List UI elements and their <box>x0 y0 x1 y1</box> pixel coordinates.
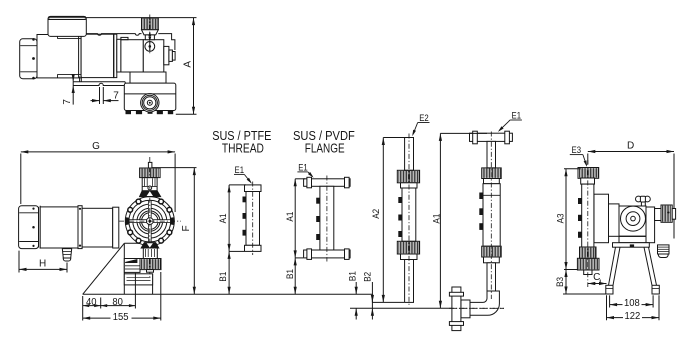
svg-text:G: G <box>92 141 100 152</box>
dimension G line <box>21 151 175 153</box>
side view: gear housing <box>82 208 113 247</box>
svg-text:B2: B2 <box>362 272 373 282</box>
svg-text:B1: B1 <box>348 271 359 281</box>
E3 bottom nut 2 <box>577 258 599 270</box>
dimension A3 extensions <box>564 168 581 170</box>
top view: valve stem <box>145 35 154 40</box>
svg-text:40: 40 <box>86 297 97 308</box>
E1 tee bar <box>470 133 513 141</box>
side view: head bolts <box>167 230 172 235</box>
side view: motor flange <box>78 206 82 249</box>
E2 union nut 1 <box>397 170 419 183</box>
svg-text:A1: A1 <box>285 212 296 222</box>
top view: motor mounting rail with notch <box>73 81 125 83</box>
right view: gearbox circle <box>621 206 646 231</box>
svg-text:7: 7 <box>62 99 73 105</box>
dimension A1 (thread) extensions <box>229 184 246 186</box>
right view: adapter <box>609 204 620 236</box>
right view: stand left leg <box>609 247 616 285</box>
E1 bottom tube <box>487 263 496 291</box>
dimension A1 (thread) <box>228 185 230 252</box>
top view: cover outline with notches <box>86 34 142 36</box>
E1 bottom flange bolts <box>449 292 463 296</box>
top view: pump head block 5 <box>172 52 175 61</box>
E1 elbow <box>470 291 499 315</box>
dimension 108 <box>610 304 623 306</box>
top view: head bracket <box>124 83 176 110</box>
dimension D <box>588 151 674 153</box>
side view: grille box with wedge <box>124 259 140 273</box>
top view: adapter section <box>117 39 121 72</box>
dimension A3 <box>565 169 567 270</box>
E3 pipe centerline <box>587 160 589 287</box>
top view: gear housing right band <box>113 34 115 77</box>
dimension 40/80 extension lines <box>82 296 84 321</box>
svg-text:A1: A1 <box>218 213 229 223</box>
right view: gearbox block <box>619 206 646 236</box>
thread pipe side tabs <box>243 197 247 203</box>
dimension A1 (right) <box>439 133 441 308</box>
side view: head cross channels <box>148 200 151 241</box>
right view: knob end cap <box>672 209 675 220</box>
E2 collar 1 <box>401 183 418 188</box>
E2 bottom tube <box>405 260 414 303</box>
svg-text:155: 155 <box>113 312 129 323</box>
top view: head rear outline step (right of valve) <box>158 34 175 50</box>
E3 top knurled nut <box>578 168 599 179</box>
svg-text:B1: B1 <box>285 269 296 279</box>
E1 union nut 1 <box>482 168 502 179</box>
E3 tube end <box>584 270 592 275</box>
dimension 122 <box>607 317 624 319</box>
thread pipe bottom cap <box>245 245 262 251</box>
side view: top fitting stem <box>148 162 152 168</box>
E3 side tabs <box>578 198 582 204</box>
side view: head clamp pads (dark) <box>171 218 174 225</box>
right view: knob stem <box>655 209 661 221</box>
E2 pipe top tube <box>405 138 414 171</box>
E2 union nut 2 <box>397 241 419 254</box>
dimension B1 (thread) <box>228 251 230 294</box>
E2 body <box>402 188 416 241</box>
top view: motor flange lines <box>78 35 80 78</box>
dimension 122 extensions <box>606 295 608 320</box>
E2 side tabs <box>398 197 402 203</box>
top view: front port circles <box>141 94 159 112</box>
side view: cable gland <box>62 249 71 258</box>
top view: gear housing <box>81 34 114 77</box>
top view: pump head block 4 <box>169 50 173 61</box>
E3 body <box>582 184 594 247</box>
dimension B2 (base offset) <box>371 282 373 302</box>
svg-text:108: 108 <box>624 298 640 309</box>
right view: stand right foot <box>652 285 659 294</box>
dimension 7 (horizontal, notch width) <box>99 87 101 104</box>
dimension A2 extensions <box>383 137 404 139</box>
top view: valve knob (knurled) <box>142 18 159 30</box>
E1 pipe centerline <box>490 132 492 300</box>
E3 bottom nut 1 <box>580 247 597 258</box>
E1 collar 1 <box>484 179 500 184</box>
svg-text:H: H <box>39 259 46 270</box>
side view: top fitting flare (with flow arrow) <box>140 191 161 197</box>
bottom pipe centerline overlay <box>449 307 504 309</box>
E1 union at elbow outlet <box>461 300 470 318</box>
flange pipe body <box>320 186 334 250</box>
dimension B1 (flange) <box>294 258 296 294</box>
right view: right housing section <box>646 207 655 243</box>
side view: dimension G extension lines <box>20 154 22 205</box>
svg-text:C: C <box>593 272 600 283</box>
right view: adjustment knob (knurled) <box>661 205 672 222</box>
top view: valve port circle <box>145 42 155 52</box>
side view: bottom fitting block <box>143 248 157 259</box>
right view: wing nut <box>636 196 642 202</box>
dimension 7 (vertical, rail offset) <box>72 75 74 82</box>
dimension A line <box>193 18 195 115</box>
E1 side tabs <box>479 193 483 200</box>
dimension D extension lines <box>587 154 589 165</box>
E1 bottom flange <box>452 287 461 331</box>
right view: cable gland <box>658 245 670 254</box>
dimension F line <box>193 168 195 295</box>
dimension A1 (right) extensions <box>440 132 487 134</box>
side view: nameplate <box>124 274 152 285</box>
svg-text:F: F <box>181 225 192 231</box>
svg-text:A: A <box>183 61 194 68</box>
dimension H <box>18 251 20 273</box>
right view: under-gearbox support <box>619 235 646 237</box>
E2 pipe centerline <box>408 134 410 306</box>
svg-text:A1: A1 <box>432 214 443 224</box>
E2 collar 2 <box>401 254 418 260</box>
E2 pipe bottom extension line <box>372 301 404 303</box>
top view: motor body <box>37 35 81 78</box>
dimension C <box>588 283 607 285</box>
right view: stand left foot <box>606 285 613 294</box>
thread pipe body <box>246 192 260 246</box>
side view: bracket diagonal and stand <box>83 243 125 294</box>
dimension 80 <box>101 305 136 307</box>
side view: head inner circles <box>137 208 163 234</box>
dimension B1 (base offset) <box>355 282 357 294</box>
E1 tee end tabs <box>473 131 478 144</box>
side view: pump head circle with bolts <box>125 197 174 246</box>
dimension A1 (flange) <box>294 179 296 258</box>
svg-text:B1: B1 <box>218 272 229 282</box>
right view: base extension line <box>563 293 607 295</box>
right view: head plate <box>594 194 609 243</box>
side view: dimension F extension line <box>150 167 196 169</box>
lower baseline <box>350 307 452 309</box>
dimension 155 <box>83 317 111 319</box>
top view: valve centerline <box>149 15 151 56</box>
top view: terminal box <box>48 16 86 36</box>
E1 collar 2 <box>484 257 500 263</box>
E1 body <box>483 184 500 247</box>
top view: pump head block 3 <box>164 46 169 64</box>
thread pipe centerline <box>252 182 254 256</box>
flange pipe centerline <box>326 176 328 262</box>
flange pipe bottom flange <box>304 250 351 258</box>
baseline (pump mounting plane) <box>83 293 373 295</box>
top view: motor end cap <box>20 39 37 79</box>
side view: motor body <box>40 207 78 248</box>
side view: bottom fitting tube end <box>147 270 154 273</box>
E1 tee stem <box>487 141 496 168</box>
E1 union nut 2 <box>482 246 502 257</box>
top view: valve flow double-arrow <box>149 33 151 41</box>
svg-text:D: D <box>627 141 634 152</box>
svg-text:FLANGE: FLANGE <box>305 140 345 155</box>
side view: top fitting block <box>142 178 157 191</box>
thread pipe top cap <box>245 185 262 192</box>
top view: valve taper <box>142 30 159 35</box>
flange pipe top flange <box>304 179 351 187</box>
right view: stand top plate <box>613 243 650 248</box>
side view: band section <box>113 207 119 248</box>
side view: head centerlines <box>149 157 151 278</box>
right view: stand right leg <box>649 247 657 285</box>
svg-text:THREAD: THREAD <box>222 140 264 155</box>
top view: pump head block 1 <box>121 40 143 72</box>
bottom pipe centerline (dash-dot) <box>452 307 504 309</box>
svg-text:80: 80 <box>112 297 123 308</box>
top view: pump head block 2 <box>143 40 164 72</box>
E3 collar <box>581 178 595 184</box>
svg-text:7: 7 <box>113 90 119 101</box>
flange pipe side tabs <box>316 198 320 204</box>
side view: motor end cap <box>19 206 39 249</box>
top view: dimension A extension line (bottom) <box>176 113 197 115</box>
dimension B3 <box>565 270 567 295</box>
svg-text:122: 122 <box>625 311 641 322</box>
side view: bottom fitting flare (with flow arrow) <box>141 243 159 248</box>
svg-text:A2: A2 <box>371 209 382 219</box>
side view: top fitting knurled nut <box>140 168 161 178</box>
svg-text:B3: B3 <box>555 277 566 287</box>
dimension 40 <box>83 305 101 307</box>
dimension 108 extensions <box>609 295 611 307</box>
top view: dimension A extension line (top) <box>86 17 197 19</box>
side view: bottom fitting knurled nut <box>140 259 161 270</box>
dimension A1 (flange) extensions <box>295 178 305 180</box>
dimension A2 <box>382 138 384 303</box>
top view: head mounting plate <box>130 72 166 83</box>
svg-text:A3: A3 <box>556 213 567 223</box>
top view: bracket feet <box>126 111 132 115</box>
baseline step down <box>371 294 373 308</box>
